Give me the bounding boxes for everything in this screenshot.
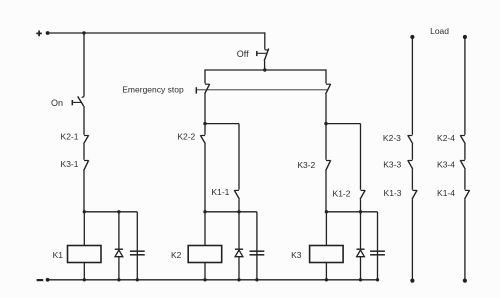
svg-text:K2-1: K2-1 [61,132,79,142]
svg-text:K1-3: K1-3 [384,188,402,198]
svg-text:On: On [51,98,63,108]
svg-text:K2-2: K2-2 [177,132,195,142]
svg-text:K1-4: K1-4 [437,188,455,198]
svg-text:K3-1: K3-1 [61,159,79,169]
svg-text:Load: Load [430,26,449,36]
svg-text:K1: K1 [53,250,64,260]
svg-text:K2: K2 [171,250,182,260]
svg-text:K1-2: K1-2 [333,188,351,198]
svg-text:K3-4: K3-4 [437,159,455,169]
svg-text:Off: Off [237,49,249,59]
svg-text:K3-2: K3-2 [297,160,315,170]
svg-text:K1-1: K1-1 [211,187,229,197]
svg-text:K2-3: K2-3 [383,133,401,143]
svg-text:K3-3: K3-3 [383,159,401,169]
svg-text:Emergency stop: Emergency stop [122,85,184,95]
svg-text:K2-4: K2-4 [437,133,455,143]
svg-text:K3: K3 [291,250,302,260]
